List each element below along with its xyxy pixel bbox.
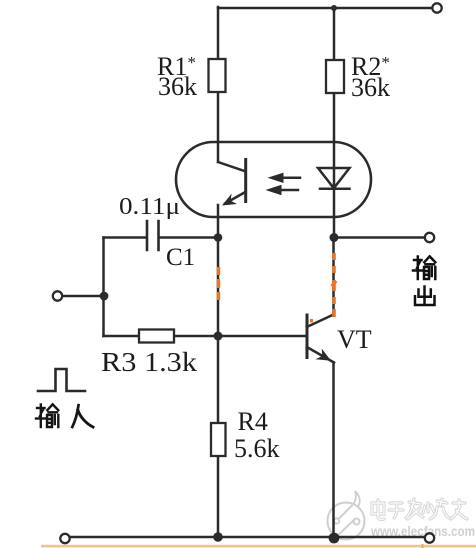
- svg-text:C1: C1: [166, 244, 195, 271]
- svg-text:R4: R4: [238, 407, 268, 436]
- svg-text:VT: VT: [337, 325, 372, 354]
- svg-text:5.6k: 5.6k: [234, 434, 280, 463]
- svg-text:36k: 36k: [158, 72, 197, 101]
- svg-text:R3 1.3k: R3 1.3k: [101, 347, 198, 377]
- svg-text:0.11μ: 0.11μ: [119, 194, 180, 220]
- svg-text:36k: 36k: [351, 73, 390, 102]
